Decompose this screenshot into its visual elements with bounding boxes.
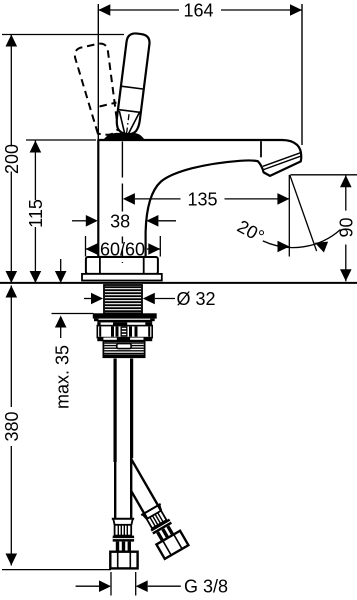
metal washer band	[97, 320, 152, 323]
dimension 164 (top)	[301, 4, 303, 145]
angle 20 degrees construction	[288, 175, 290, 257]
svg-text:135: 135	[187, 189, 217, 209]
dimension 90 (right)	[291, 174, 357, 176]
supply hose 1 (vertical)	[116, 359, 130, 519]
mounting nut	[97, 326, 152, 338]
hose guide center rect	[117, 344, 131, 349]
dimension 38	[72, 220, 86, 222]
faucet centerline	[121, 142, 123, 212]
deck / mounting surface line	[0, 282, 357, 284]
dimension G 3/8 (bottom)	[110, 572, 112, 596]
dimension diameter 32	[84, 298, 92, 300]
dimension 60/60	[85, 236, 87, 257]
svg-text:38: 38	[110, 211, 130, 231]
centerline in flange	[121, 237, 123, 264]
solid lever	[114, 32, 150, 141]
flange inner line left	[99, 258, 101, 274]
extension line 164 left / column edge top	[97, 4, 99, 140]
svg-text:90: 90	[336, 217, 356, 237]
spout head joint line	[260, 141, 262, 157]
base plate	[82, 274, 162, 281]
svg-text:Ø 32: Ø 32	[176, 289, 215, 309]
dashed lever (alternate position)	[75, 44, 118, 135]
washer slot row	[97, 322, 152, 325]
aerator band line 1	[263, 153, 300, 167]
dimension 115	[26, 139, 96, 141]
hose 1 end fitting	[110, 519, 137, 569]
dimension 380	[10, 286, 12, 408]
lever joint dome (black)	[103, 133, 145, 141]
threaded shank	[104, 285, 142, 313]
faucet body and spout outline	[98, 140, 301, 257]
dimension max. 35	[60, 259, 62, 272]
dimension 135	[123, 193, 135, 205]
nut bottom row	[97, 338, 152, 342]
svg-text:max. 35: max. 35	[52, 345, 72, 409]
rubber washer (black band)	[93, 313, 157, 318]
svg-text:164: 164	[183, 1, 213, 21]
svg-text:115: 115	[26, 199, 46, 228]
svg-text:60/60: 60/60	[100, 240, 145, 260]
dimension 200 (left)	[2, 34, 124, 36]
base flange	[86, 257, 158, 274]
svg-text:200: 200	[2, 144, 22, 174]
svg-text:380: 380	[2, 411, 22, 441]
svg-text:G 3/8: G 3/8	[184, 577, 228, 597]
lower threaded block	[103, 341, 144, 357]
flange inner line right	[143, 258, 145, 274]
aerator band line 2	[264, 156, 301, 169]
